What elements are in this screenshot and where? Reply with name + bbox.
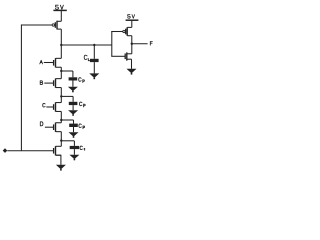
ground (under C1) bbox=[69, 155, 79, 161]
label A bbox=[40, 60, 43, 64]
wire: QD source to node N4 bbox=[60, 132, 62, 141]
wire: bus to inverter PMOS gate bbox=[111, 31, 123, 33]
supply bar VDD2 bbox=[126, 19, 139, 21]
transistor Qip (inverter PMOS) bbox=[123, 27, 132, 36]
wire: node Y to QA drain bbox=[60, 45, 62, 58]
label B bbox=[40, 81, 43, 85]
ground (under Cp1) bbox=[68, 87, 78, 93]
capacitor Cp1 bbox=[69, 71, 78, 87]
wire: QB source to node N2 bbox=[60, 88, 62, 97]
5V supply label (right) bbox=[128, 15, 135, 19]
wire: Qip drain to node F bbox=[131, 36, 133, 44]
wire: Qin drain to node F bbox=[131, 44, 133, 54]
wire: VDD2 to Qip source bbox=[131, 20, 133, 27]
ground (under CL) bbox=[89, 73, 99, 79]
5V supply label (left) bbox=[56, 5, 64, 9]
label Cp2 bbox=[80, 102, 86, 107]
node N1 junction bbox=[60, 70, 62, 72]
capacitor Cp2 bbox=[69, 96, 78, 110]
wire: Qp drain to node Y bbox=[60, 29, 62, 45]
node CL tap junction bbox=[93, 44, 95, 46]
label F bbox=[150, 42, 152, 46]
wire: QC source to node N3 bbox=[60, 111, 62, 120]
node F junction bbox=[131, 43, 133, 45]
wire: B gate stub bbox=[44, 82, 53, 84]
transistor QB (NMOS input B) bbox=[54, 78, 62, 87]
node N3 junction bbox=[60, 119, 62, 121]
wire: D gate stub bbox=[45, 126, 54, 128]
transistor Qp (PMOS precharge) bbox=[52, 21, 61, 30]
transistor QA (NMOS input A) bbox=[54, 58, 62, 67]
wire: Qin source down bbox=[131, 59, 133, 69]
label C bbox=[43, 103, 45, 107]
wire: N3 to QD drain bbox=[60, 120, 62, 123]
wire: N1 to Cp1 bbox=[61, 70, 73, 72]
capacitor Cp3 bbox=[69, 120, 78, 132]
supply bar VDD1 bbox=[53, 9, 66, 11]
ground (under Cp2) bbox=[68, 110, 78, 116]
wire: QA source to node N1 bbox=[60, 67, 62, 71]
label CL bbox=[84, 55, 90, 61]
transistor Qin (inverter NMOS) bbox=[125, 52, 132, 60]
wire: N2 to QC drain bbox=[60, 96, 62, 102]
wire: clock line to Qp gate bbox=[21, 24, 52, 26]
wire: N2 to Cp2 bbox=[61, 95, 73, 97]
wire: bus to inverter NMOS gate bbox=[111, 55, 125, 57]
label Cp1 bbox=[79, 78, 85, 83]
wire: output to F bbox=[132, 43, 148, 45]
wire: N1 to QB drain bbox=[60, 71, 62, 79]
capacitor C1 bbox=[70, 141, 79, 155]
wire: left clock rail bbox=[20, 24, 22, 150]
wire: N4 to C1 bbox=[61, 140, 74, 142]
wire: C gate stub bbox=[46, 106, 53, 108]
clock terminal (diamond) bbox=[3, 148, 8, 153]
wire: N3 to Cp3 bbox=[61, 119, 73, 121]
wire: N4 to Qe drain bbox=[60, 141, 62, 147]
node Y junction bbox=[60, 44, 62, 46]
node N2 junction bbox=[60, 95, 62, 97]
ground (under inverter) bbox=[127, 69, 137, 75]
label C1 bbox=[80, 146, 85, 150]
wire: clock input line bbox=[7, 150, 53, 152]
wire: node Y to inverter bus bbox=[61, 44, 112, 46]
wire: A gate stub bbox=[44, 62, 54, 64]
ground (under Cp3) bbox=[69, 132, 79, 138]
transistor QD (NMOS input D) bbox=[54, 123, 62, 132]
label Cp3 bbox=[79, 124, 85, 129]
wire: inverter gate bus bbox=[111, 32, 113, 57]
capacitor CL bbox=[90, 45, 99, 73]
transistor Qe (NMOS evaluate) bbox=[54, 146, 62, 155]
label D bbox=[40, 122, 43, 126]
transistor QC (NMOS input C) bbox=[54, 102, 62, 111]
node N4 junction bbox=[60, 139, 62, 141]
ground (chain bottom) bbox=[56, 165, 66, 171]
wire: Qe source down bbox=[60, 155, 62, 165]
wire: VDD1 to Qp source bbox=[60, 10, 62, 21]
